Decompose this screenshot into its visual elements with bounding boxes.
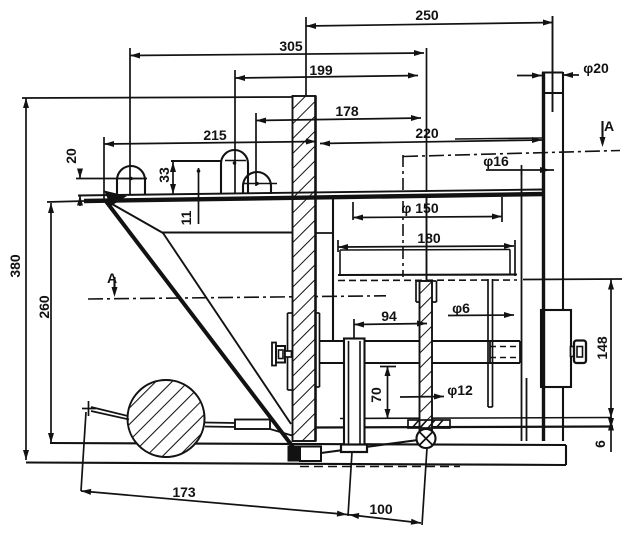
svg-text:220: 220	[415, 125, 439, 141]
svg-text:6: 6	[592, 440, 608, 448]
svg-text:φ16: φ16	[483, 153, 509, 169]
svg-text:148: 148	[594, 336, 610, 360]
svg-text:260: 260	[36, 295, 52, 319]
svg-text:φ 150: φ 150	[401, 200, 438, 216]
svg-text:A: A	[107, 270, 117, 286]
svg-text:173: 173	[172, 484, 196, 500]
svg-text:380: 380	[7, 254, 23, 278]
svg-text:100: 100	[369, 501, 393, 517]
svg-text:φ6: φ6	[452, 300, 470, 316]
svg-text:94: 94	[381, 308, 397, 324]
svg-text:305: 305	[279, 38, 303, 54]
svg-text:178: 178	[335, 103, 359, 119]
svg-text:φ20: φ20	[583, 60, 609, 76]
svg-text:180: 180	[417, 230, 441, 246]
svg-text:20: 20	[63, 148, 79, 164]
svg-text:215: 215	[203, 127, 227, 143]
svg-text:199: 199	[309, 62, 333, 78]
svg-text:φ12: φ12	[447, 382, 473, 398]
svg-text:33: 33	[156, 167, 172, 183]
svg-text:A: A	[604, 118, 614, 134]
svg-text:11: 11	[178, 210, 194, 225]
svg-text:70: 70	[368, 387, 384, 403]
svg-text:250: 250	[415, 7, 439, 23]
